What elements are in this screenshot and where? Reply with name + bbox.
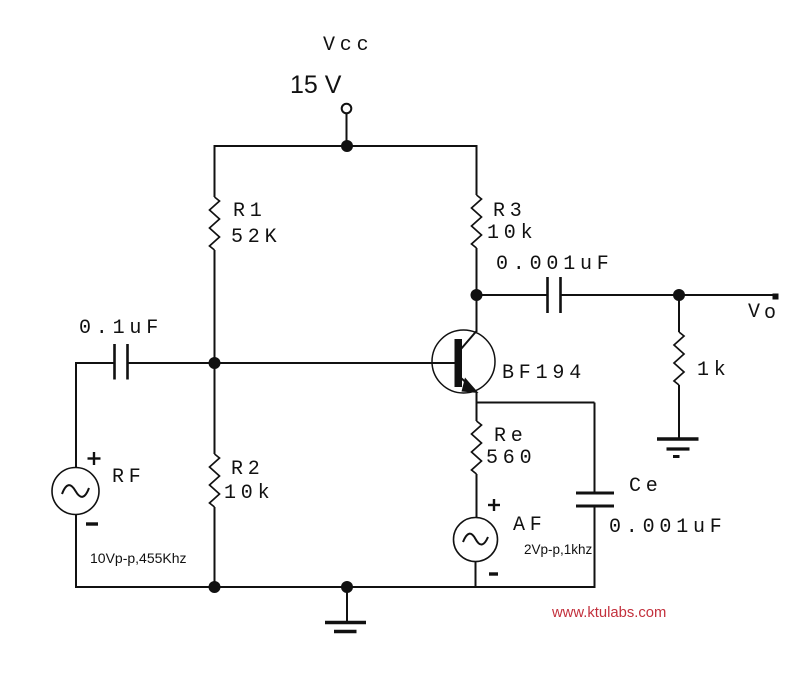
svg-text:15 V: 15 V	[290, 71, 342, 99]
svg-text:Vcc: Vcc	[323, 34, 373, 57]
AF label	[513, 514, 547, 537]
source AF (sine generator)	[454, 518, 498, 562]
resistor Re	[472, 421, 537, 474]
wire Re to AF source	[476, 474, 478, 518]
svg-text:0.001uF: 0.001uF	[496, 253, 614, 276]
svg-text:R2: R2	[231, 458, 265, 481]
ground (right)	[657, 439, 699, 457]
transistor Q1 BF194	[432, 330, 495, 393]
wire left branch upper (top rail to R1)	[214, 145, 216, 197]
RF label	[112, 466, 146, 489]
AF minus sign	[489, 572, 498, 575]
AF plus sign	[488, 499, 500, 511]
junction Vcc on top rail	[341, 140, 353, 152]
resistor R2	[210, 454, 275, 507]
svg-text:www.ktulabs.com: www.ktulabs.com	[551, 605, 666, 621]
source RF (sine generator)	[52, 468, 99, 515]
wire RF source drop	[75, 363, 77, 468]
svg-text:V: V	[748, 301, 760, 324]
wire base node to R2	[214, 363, 216, 454]
svg-text:RF: RF	[112, 466, 146, 489]
wire Ce drop upper	[594, 403, 596, 493]
Vcc terminal (open circle)	[342, 104, 352, 114]
capacitor 0.001uF output	[548, 277, 561, 313]
svg-text:52K: 52K	[231, 226, 281, 249]
Vo label	[748, 301, 776, 325]
wire 1k to right ground	[678, 385, 680, 439]
svg-text:560: 560	[486, 447, 536, 470]
junction collector node	[471, 289, 483, 301]
svg-text:R3: R3	[493, 200, 527, 223]
junction R2 at ground rail	[209, 581, 221, 593]
resistor 1k load	[674, 332, 731, 385]
svg-text:10Vp-p,455Khz: 10Vp-p,455Khz	[90, 550, 187, 566]
AF value label 2Vp-p,1khz	[524, 542, 593, 557]
wire emitter branch to Ce	[477, 402, 595, 404]
wire input cap to base	[128, 362, 456, 364]
svg-text:R1: R1	[233, 200, 267, 223]
terminal Vo	[773, 294, 779, 300]
svg-text:BF194: BF194	[502, 362, 586, 385]
wire collector node to output cap	[477, 294, 548, 296]
junction load node	[673, 289, 685, 301]
svg-text:10k: 10k	[224, 482, 274, 505]
wire right branch upper (top rail to R3)	[476, 145, 478, 195]
RF value label 10Vp-p,455Khz	[90, 550, 187, 566]
junction base node	[209, 357, 221, 369]
output coupling cap value 0.001uF	[496, 253, 614, 276]
wire Ce drop lower	[594, 506, 596, 588]
wire top rail	[214, 145, 478, 147]
wire R2 to ground rail	[214, 507, 216, 587]
capacitor 0.1uF input	[79, 317, 163, 380]
wire source to input cap	[75, 362, 115, 364]
Vcc label	[323, 34, 373, 57]
wire ground stem	[346, 587, 348, 622]
ground (center)	[325, 623, 366, 632]
wire load node to Vo terminal	[679, 294, 774, 296]
wire R3 to collector node	[476, 248, 478, 332]
resistor R3	[472, 195, 538, 248]
svg-text:0.1uF: 0.1uF	[79, 317, 163, 340]
wire output cap to load node	[561, 294, 680, 296]
wire load node to 1k	[678, 295, 680, 332]
svg-text:10k: 10k	[487, 222, 537, 245]
svg-text:Ce: Ce	[629, 475, 663, 498]
svg-text:o: o	[764, 302, 776, 325]
RF plus sign	[88, 452, 101, 465]
capacitor Ce bypass	[576, 475, 727, 539]
BF194 label	[502, 362, 586, 385]
wire R1 to base node	[214, 250, 216, 363]
wire emitter drop	[476, 392, 478, 421]
RF minus sign	[86, 522, 98, 525]
wire Vcc stem	[346, 114, 348, 147]
svg-text:2Vp-p,1khz: 2Vp-p,1khz	[524, 542, 593, 557]
watermark www.ktulabs.com	[551, 605, 666, 621]
junction ground tap	[341, 581, 353, 593]
svg-text:1k: 1k	[697, 359, 731, 382]
svg-text:0.001uF: 0.001uF	[609, 516, 727, 539]
resistor R1	[210, 197, 282, 250]
svg-text:Re: Re	[494, 425, 528, 448]
15 V supply value label	[290, 71, 342, 99]
svg-text:AF: AF	[513, 514, 547, 537]
wire bottom ground rail	[75, 586, 595, 588]
wire RF to ground rail	[75, 515, 77, 589]
wire AF to ground rail	[475, 562, 477, 589]
